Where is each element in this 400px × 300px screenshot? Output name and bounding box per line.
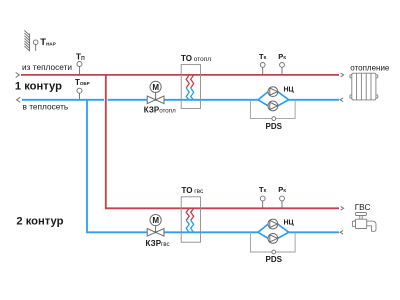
svg-text:из теплосети: из теплосети [22, 62, 72, 72]
TO gvs coil (red part) [186, 208, 189, 220]
svg-text:НЦ: НЦ [284, 86, 295, 93]
svg-text:1 контур: 1 контур [15, 81, 62, 93]
red riser to circuit 2 [106, 75, 339, 208]
pump branch lines circuit 2 (blue diamond) [258, 224, 289, 238]
TO gvs coil (blue part) [186, 220, 189, 232]
sensor Tp (supply temperature) [77, 62, 82, 75]
arrow from heating [340, 98, 343, 102]
arrow from GVS [340, 230, 343, 234]
tap (faucet) [352, 213, 376, 232]
pump NC top circuit 2 [268, 219, 278, 229]
svg-text:М: М [152, 83, 159, 92]
pump branch lines circuit 1 (blue diamond) [258, 92, 289, 106]
PDS bypass loop circuit 2 [250, 232, 295, 252]
pump NC bottom circuit 1 [268, 101, 278, 111]
pump NC bottom circuit 2 [268, 234, 278, 244]
svg-text:М: М [152, 216, 159, 225]
arrow to heating [341, 73, 344, 77]
sensor Tk circuit 1 [260, 63, 265, 75]
sensor Tobr (return temperature) [77, 88, 82, 100]
TO otopl coil (blue part) [186, 88, 189, 100]
svg-text:PDS: PDS [266, 255, 283, 264]
svg-text:КЗРотопл: КЗРотопл [144, 105, 176, 114]
heat exchanger TO otopl [181, 65, 200, 109]
sensor Pk circuit 1 [280, 63, 285, 75]
svg-text:PDS: PDS [266, 122, 283, 131]
svg-text:отопление: отопление [350, 63, 390, 72]
svg-text:ТО отопл: ТО отопл [181, 54, 211, 63]
return pipe circuit 1 (blue), gap at red riser crossing and pump diamond [22, 99, 104, 101]
sensor Pk circuit 2 [280, 196, 285, 208]
svg-text:в теплосеть: в теплосеть [23, 102, 69, 112]
blue riser to circuit 2 [87, 100, 258, 233]
PDS sensor circuit 1 [272, 117, 276, 121]
svg-text:НЦ: НЦ [284, 220, 295, 227]
sensor Tnar (outdoor temperature) [33, 40, 38, 51]
svg-text:2 контур: 2 контур [16, 216, 63, 228]
heat exchanger TO gvs [181, 197, 200, 242]
wall (hatched) [24, 31, 29, 52]
supply pipe circuit 1 (red) [21, 74, 339, 76]
svg-text:ТО гвс: ТО гвс [182, 186, 204, 195]
PDS sensor circuit 2 [272, 250, 276, 254]
sensor Tk circuit 2 [260, 196, 265, 208]
arrow to GVS [341, 206, 344, 210]
radiator [350, 73, 378, 100]
pump NC top circuit 1 [268, 87, 278, 97]
PDS bypass loop circuit 1 [250, 100, 295, 119]
TO otopl primary coil (red part) [186, 75, 189, 88]
arrow in (supply from network) [16, 72, 20, 77]
valve KZR otopl (motorized) [147, 81, 164, 103]
svg-text:ГВС: ГВС [355, 202, 371, 212]
arrow out (return to network) [17, 97, 21, 102]
svg-text:КЗРгвс: КЗРгвс [146, 239, 170, 248]
valve KZR gvs (motorized) [147, 215, 164, 237]
